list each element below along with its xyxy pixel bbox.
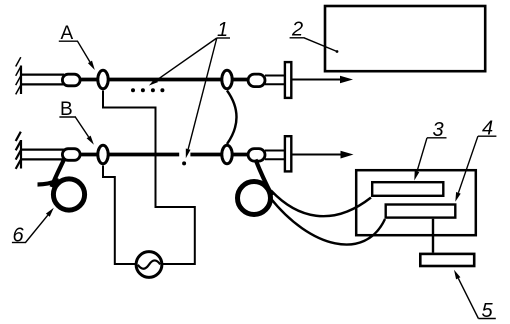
fiber into loop 6 (inlet) [52,159,65,188]
generator (sine source) [136,252,162,278]
coupler A (ellipse) [98,70,108,88]
coupler B (ellipse) [98,145,108,163]
ferrule capsule right (line A) [248,74,265,87]
fiber loop 6 tail [38,180,60,185]
collimator plate (line B) [285,136,291,171]
fiber tube (ferrule to collimator, line A) [265,76,285,85]
box (receiver unit) [356,170,476,235]
fiber line B (thick, with gap for leader) [80,153,248,157]
label 2 with leader [290,19,339,53]
wire from coupler A to generator [103,91,195,265]
fiber lead to receiver 3 [271,191,371,217]
output beam arrow (line B) [293,151,354,159]
fixed support wall (line B) [16,132,21,169]
coupler on line A right [222,70,232,88]
ferrule capsule left (line A) [62,74,80,86]
fiber line A (thick) [80,78,248,82]
label 1 with two leaders [149,19,230,158]
ferrule capsule right (line B) [248,149,265,162]
wire block4 to box5 [432,219,434,253]
fiber into right loop [256,160,273,196]
fiber loop (right) [238,182,271,215]
inner block 3 [372,182,443,196]
label 5 with leader [454,270,496,322]
fiber tube (wall to ferrule, line B) [21,150,64,160]
box 5 (indicator) [420,254,474,266]
ferrule capsule left (line B) [62,149,80,161]
fixed support wall (line A) [16,57,21,94]
continuation dots on line A [131,88,164,92]
coupler on line B right [222,145,232,163]
dot below line B [182,161,186,165]
fiber loop 6 (left) [53,179,84,210]
bypass fiber arc between right couplers [227,91,237,145]
label 4 with leader [455,118,496,202]
box 2 (photodetector unit) [325,6,485,71]
output beam arrow (line A) [293,76,354,84]
label B [59,99,94,145]
fiber tube (wall to ferrule, line A) [21,75,64,85]
label 3 with leader [414,119,446,181]
collimator plate (line A) [285,62,291,98]
wire from coupler B to generator [103,166,136,265]
fiber lead to receiver 4 [270,198,385,245]
fiber tube (ferrule to collimator, line B) [265,151,285,160]
label 6 with leader [12,208,54,247]
label A [59,23,95,70]
inner block 4 [386,205,456,218]
